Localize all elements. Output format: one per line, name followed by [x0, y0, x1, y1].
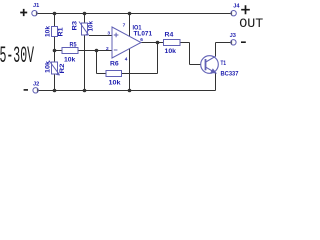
- svg-text:10k: 10k: [64, 58, 76, 64]
- svg-text:R2: R2: [60, 63, 66, 74]
- trimmer R3: [82, 23, 88, 35]
- svg-text:3: 3: [107, 31, 110, 37]
- wire R3 bottom lead: [84, 35, 86, 91]
- node bottom rail / R3: [83, 89, 87, 93]
- node bottom rail / R2: [53, 89, 57, 93]
- resistor R6: [106, 71, 122, 77]
- node top rail / pin7: [128, 12, 132, 16]
- resistor R5: [62, 48, 78, 54]
- svg-text:5-30V: 5-30V: [0, 43, 34, 70]
- node bottom rail / pin4: [128, 89, 132, 93]
- wire collector to J3: [216, 42, 232, 44]
- resistor R1: [52, 27, 58, 37]
- connector J3: [231, 40, 236, 45]
- svg-text:10k: 10k: [46, 60, 52, 73]
- plus sign at J1: [20, 9, 27, 16]
- minus sign at J2: [24, 89, 28, 91]
- node top rail / R3: [83, 12, 87, 16]
- node output: [156, 41, 160, 45]
- svg-text:2: 2: [106, 46, 109, 52]
- wire node A to R5: [55, 50, 63, 52]
- svg-text:10k: 10k: [109, 80, 122, 86]
- svg-text:4: 4: [125, 57, 128, 63]
- node inverting input: [95, 49, 99, 53]
- wire top rail: [37, 13, 231, 15]
- svg-text:10k: 10k: [89, 20, 95, 31]
- svg-text:J3: J3: [230, 33, 237, 39]
- transistor T1 base bar: [205, 59, 207, 70]
- svg-text:OUT: OUT: [239, 16, 263, 31]
- wire to R6 left: [97, 73, 107, 75]
- wire R3 wiper to pin 3: [89, 35, 112, 37]
- connector J4: [231, 11, 236, 16]
- svg-text:R3: R3: [73, 20, 79, 30]
- resistor R4: [164, 40, 181, 46]
- wire R1 bottom lead to node A: [54, 37, 56, 51]
- svg-text:TL071: TL071: [134, 32, 153, 38]
- svg-text:10k: 10k: [46, 25, 52, 37]
- trimmer R3 wiper arrow: [79, 22, 89, 35]
- wire bottom rail: [38, 90, 216, 92]
- node top rail / R1: [53, 12, 57, 16]
- connector J1: [32, 11, 37, 16]
- op-amp U1 triangle: [112, 27, 141, 58]
- plus sign at J4: [241, 5, 250, 14]
- wire elbow down: [189, 43, 191, 65]
- wire collector up: [215, 43, 217, 57]
- wire R6 right to output column: [122, 73, 158, 75]
- wire pin 7: [129, 14, 131, 37]
- connector J2 pin tick: [36, 89, 38, 93]
- svg-text:R1: R1: [59, 27, 65, 37]
- svg-text:R5: R5: [70, 43, 78, 49]
- svg-text:6: 6: [140, 37, 143, 43]
- connector J3 pin tick: [231, 41, 233, 45]
- wire node A to R2: [54, 51, 56, 63]
- trimmer R2 wiper arrow: [49, 61, 60, 75]
- wire R2 to bottom rail: [54, 74, 56, 91]
- wire inverting node down: [96, 51, 98, 74]
- transistor T1 emitter diagonal: [206, 67, 216, 73]
- svg-text:R6: R6: [110, 62, 119, 68]
- svg-text:J4: J4: [233, 4, 240, 10]
- connector J1 pin tick: [35, 12, 37, 16]
- trimmer R2: [52, 62, 58, 74]
- svg-text:BC337: BC337: [221, 71, 240, 77]
- svg-text:J1: J1: [33, 3, 40, 9]
- op-amp plus marker: [114, 33, 119, 38]
- svg-text:J2: J2: [33, 82, 39, 88]
- transistor T1 circle: [201, 56, 219, 74]
- minus sign at J3: [241, 41, 246, 43]
- svg-text:7: 7: [123, 23, 126, 29]
- wire pin 4 to bottom rail: [129, 49, 131, 91]
- svg-text:10k: 10k: [165, 49, 177, 55]
- op-amp minus marker: [114, 49, 118, 51]
- wire R5 to op-amp pin 2: [78, 50, 112, 52]
- wire R4 to elbow: [180, 42, 190, 44]
- transistor T1 collector diagonal: [206, 56, 216, 62]
- wire to base: [190, 64, 202, 66]
- connector J4 pin tick: [231, 12, 233, 16]
- transistor T1 emitter arrowhead: [211, 69, 216, 73]
- wire R3 top lead: [84, 14, 86, 24]
- wire emitter down: [215, 73, 217, 91]
- node A R1/R2/R5: [53, 49, 57, 53]
- svg-text:R4: R4: [165, 32, 175, 38]
- connector J2: [33, 88, 38, 93]
- wire feedback up to output: [157, 43, 159, 74]
- svg-text:T1: T1: [221, 61, 227, 67]
- wire op-amp output to R4: [141, 42, 164, 44]
- wire R1 top lead: [54, 14, 56, 27]
